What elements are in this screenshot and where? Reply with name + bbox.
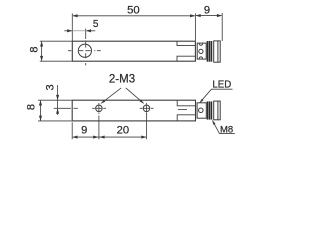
dimension 8 (height, top view): [40, 41, 72, 61]
knurl circle bottom partial: [199, 57, 202, 59]
sensing face circle (top view): [78, 44, 91, 57]
end cap (bottom view): [214, 101, 221, 120]
dimension 3 (top edge to hole center): [57, 85, 59, 115]
connector knurled block (bottom view): [197, 103, 206, 118]
body rear notch step lines (top view): [177, 41, 195, 61]
thread zone (bottom view): [207, 102, 213, 120]
vertical centerline of circle / ext line of dim 5: [85, 29, 87, 66]
knurl circle middle: [199, 49, 203, 53]
svg-text:8: 8: [26, 104, 38, 110]
LED circle: [199, 108, 204, 113]
sensor body (top view): [72, 41, 195, 61]
svg-text:2-M3: 2-M3: [109, 73, 135, 85]
svg-text:50: 50: [127, 5, 140, 17]
svg-text:9: 9: [81, 125, 87, 137]
connector knurled block (top view): [197, 43, 206, 59]
end cap (top view): [214, 41, 221, 62]
svg-text:8: 8: [28, 46, 40, 52]
svg-text:9: 9: [204, 4, 210, 16]
horizontal centerline of circle: [68, 50, 101, 52]
body rear notch step lines (bottom view): [177, 100, 195, 120]
knurl circle top partial: [199, 44, 202, 46]
dimension 8 (height, bottom view): [38, 100, 72, 121]
dimension 9 (connector length, top): [196, 13, 222, 41]
svg-text:M8: M8: [220, 125, 233, 136]
svg-text:5: 5: [93, 19, 99, 30]
M3 hole 2: [143, 105, 150, 112]
dimension 5 (left edge to circle center): [64, 30, 95, 32]
dimensions 9 and 20 (hole positions): [72, 113, 146, 140]
thread zone (top view): [207, 41, 213, 61]
sensor body (bottom view): [72, 100, 195, 121]
svg-text:3: 3: [45, 84, 57, 90]
M3 hole 1: [96, 105, 103, 112]
hole centerline extension (for dim 3): [54, 107, 78, 109]
svg-text:20: 20: [117, 125, 129, 137]
dimension 50: [72, 13, 195, 41]
LED centerline dash: [178, 109, 187, 111]
